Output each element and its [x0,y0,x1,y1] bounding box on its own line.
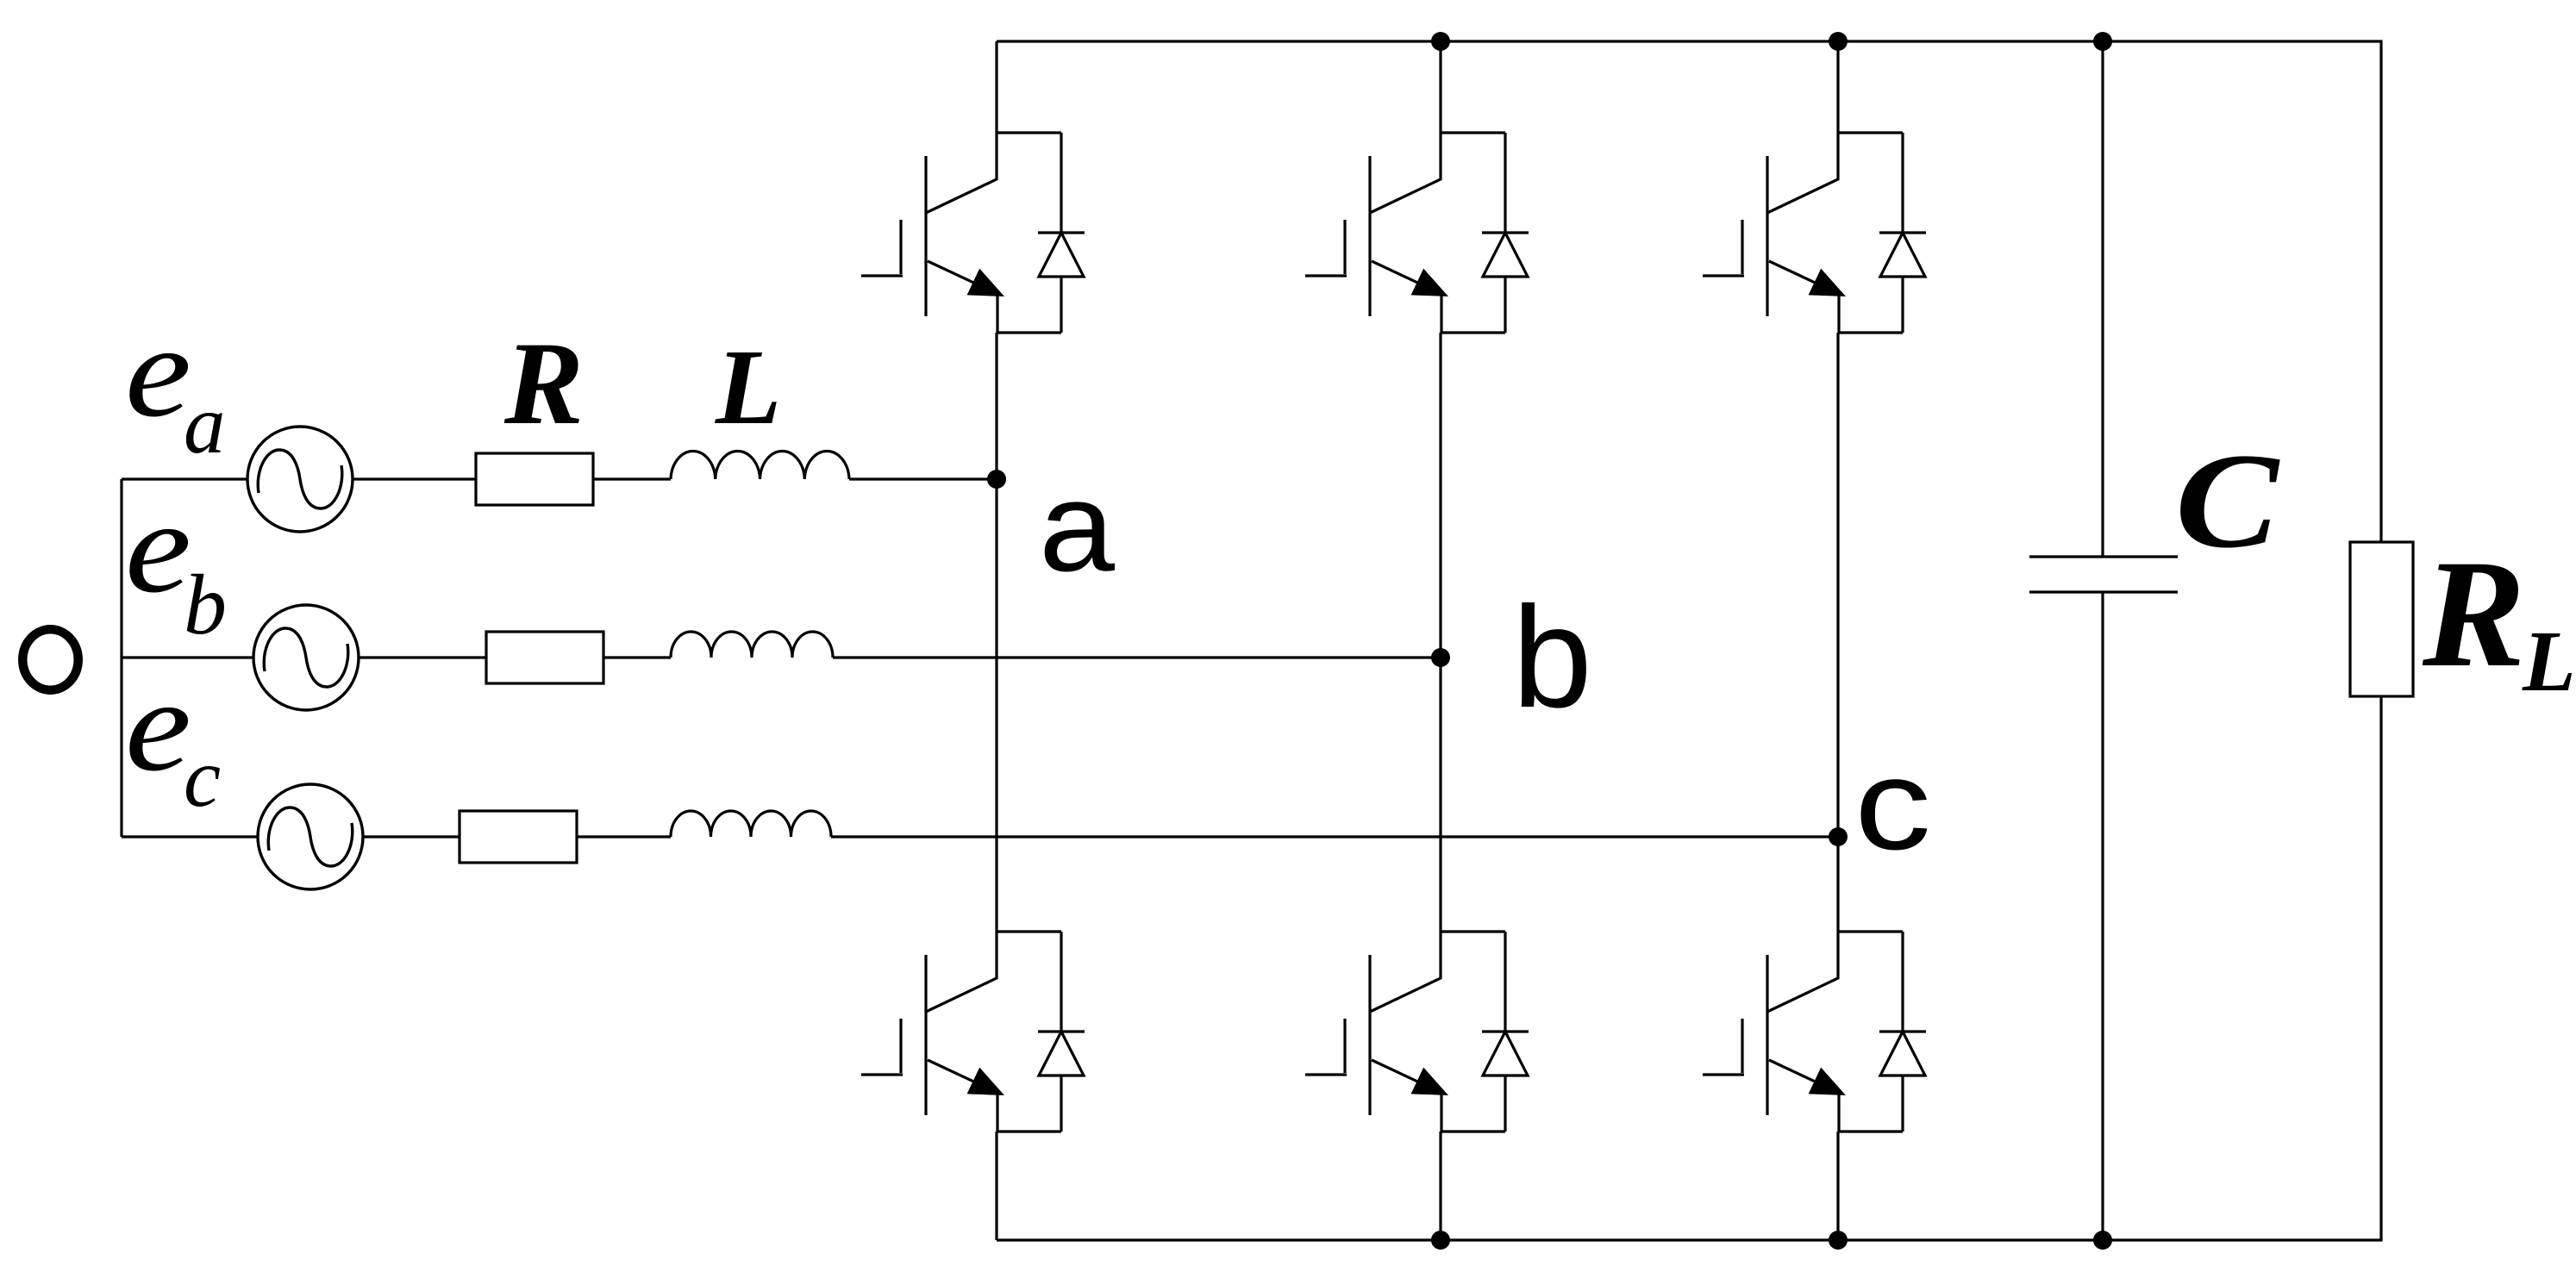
svg-text:a: a [184,378,226,471]
svg-text:c: c [1854,732,1931,876]
svg-text:L: L [715,328,781,447]
svg-text:C: C [2175,426,2280,577]
svg-text:e: e [125,475,191,620]
svg-text:R: R [503,317,584,449]
svg-text:c: c [184,732,221,824]
svg-text:a: a [1039,456,1116,598]
svg-text:b: b [184,557,227,652]
svg-text:L: L [2522,613,2576,709]
svg-text:e: e [125,299,191,445]
svg-text:R: R [2422,527,2525,699]
svg-text:b: b [1512,577,1592,738]
svg-text:e: e [125,653,191,799]
